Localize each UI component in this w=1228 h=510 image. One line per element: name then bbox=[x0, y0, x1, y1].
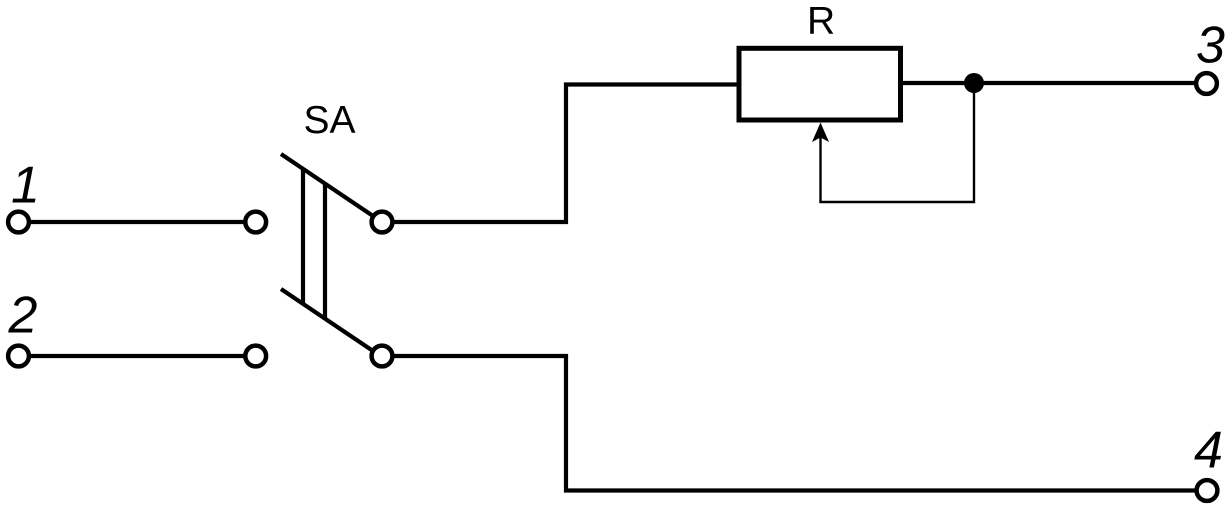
svg-text:R: R bbox=[807, 0, 835, 42]
svg-text:1: 1 bbox=[11, 157, 40, 215]
svg-text:SA: SA bbox=[304, 99, 356, 142]
svg-text:3: 3 bbox=[1196, 17, 1225, 75]
svg-text:2: 2 bbox=[8, 287, 38, 345]
svg-text:4: 4 bbox=[1194, 422, 1223, 480]
